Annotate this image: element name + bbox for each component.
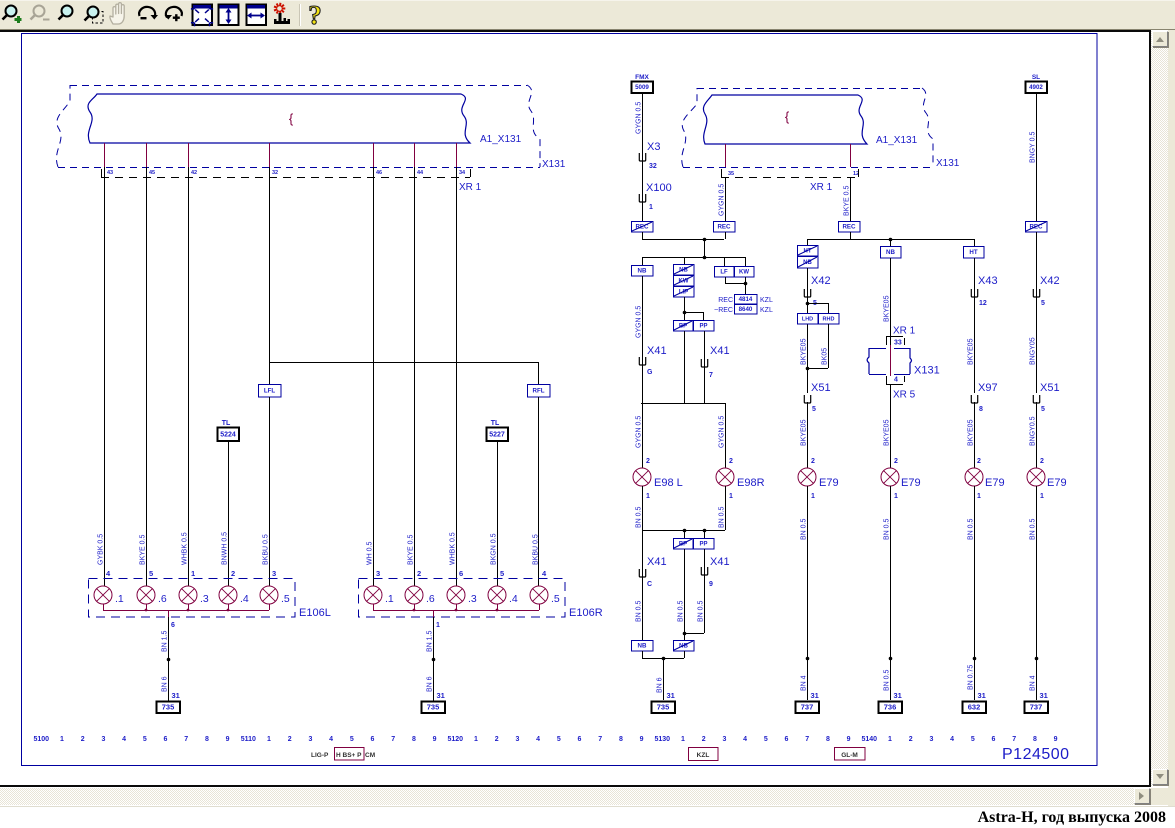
svg-text:34: 34 [459, 170, 466, 176]
svg-text:BN 0.5: BN 0.5 [719, 506, 726, 528]
svg-text:4: 4 [329, 736, 333, 743]
svg-text:XR 1: XR 1 [810, 182, 833, 193]
svg-text:8: 8 [619, 736, 623, 743]
svg-text:BN 0.5: BN 0.5 [884, 518, 891, 540]
svg-text:X131: X131 [936, 158, 960, 169]
svg-text:9: 9 [847, 736, 851, 743]
svg-text:31: 31 [172, 691, 180, 700]
svg-text:735: 735 [657, 703, 670, 712]
svg-text:5: 5 [143, 736, 147, 743]
svg-text:7: 7 [1012, 736, 1016, 743]
svg-text:E98 L: E98 L [654, 477, 683, 489]
svg-text:X131: X131 [542, 159, 566, 170]
svg-text:5110: 5110 [241, 736, 256, 743]
svg-text:1: 1 [267, 736, 271, 743]
svg-text:BNGY 0.5: BNGY 0.5 [1030, 132, 1037, 163]
svg-text:32: 32 [649, 163, 657, 170]
svg-text:BN 0.5: BN 0.5 [801, 518, 808, 540]
svg-text:GYGN 0.5: GYGN 0.5 [719, 184, 726, 216]
svg-text:P124500: P124500 [1002, 746, 1070, 763]
svg-text:.4: .4 [509, 593, 518, 605]
svg-text:BKYE 0.5: BKYE 0.5 [140, 535, 147, 565]
svg-text:A1_X131: A1_X131 [480, 134, 522, 145]
svg-text:LFL: LFL [264, 388, 276, 395]
svg-text:2: 2 [1040, 458, 1044, 465]
svg-text:BN 0.5: BN 0.5 [1030, 518, 1037, 540]
svg-text:RHD: RHD [823, 316, 835, 322]
svg-text:8: 8 [826, 736, 830, 743]
svg-text:2: 2 [702, 736, 706, 743]
svg-text:4814: 4814 [739, 296, 753, 303]
svg-text:GYGN 0.5: GYGN 0.5 [719, 416, 726, 448]
svg-text:XR 1: XR 1 [459, 182, 482, 193]
svg-text:PP: PP [699, 324, 707, 330]
svg-text:2: 2 [646, 458, 650, 465]
svg-text:BKBU 0.5: BKBU 0.5 [263, 534, 270, 565]
svg-text:G: G [647, 369, 653, 376]
svg-text:1: 1 [191, 569, 195, 578]
svg-text:BN 6: BN 6 [657, 677, 664, 693]
svg-text:{: { [785, 109, 790, 124]
svg-text:7: 7 [805, 736, 809, 743]
svg-text:9: 9 [1054, 736, 1058, 743]
svg-text:X100: X100 [646, 182, 672, 194]
svg-text:31: 31 [667, 691, 675, 700]
svg-text:31: 31 [978, 691, 986, 700]
svg-text:6: 6 [459, 569, 463, 578]
svg-text:BN 0.5: BN 0.5 [636, 506, 643, 528]
svg-text:~REC: ~REC [714, 307, 733, 314]
svg-text:2: 2 [811, 458, 815, 465]
svg-text:C: C [647, 581, 652, 588]
svg-text:E79: E79 [1047, 477, 1067, 489]
svg-text:X42: X42 [811, 275, 831, 287]
svg-text:2: 2 [909, 736, 913, 743]
svg-text:5: 5 [557, 736, 561, 743]
svg-text:2: 2 [288, 736, 292, 743]
svg-text:BN 0.5: BN 0.5 [636, 600, 643, 622]
svg-text:31: 31 [811, 691, 819, 700]
svg-text:X42: X42 [1040, 275, 1060, 287]
svg-text:KW: KW [739, 270, 749, 276]
svg-text:1: 1 [729, 493, 733, 500]
svg-text:6: 6 [164, 736, 168, 743]
svg-text:7: 7 [391, 736, 395, 743]
svg-text:BN 6: BN 6 [427, 676, 434, 692]
svg-text:8: 8 [979, 406, 983, 413]
svg-text:9: 9 [433, 736, 437, 743]
svg-text:4: 4 [122, 736, 126, 743]
svg-text:5130: 5130 [655, 736, 671, 743]
svg-text:1: 1 [436, 622, 440, 629]
svg-text:3: 3 [376, 569, 380, 578]
svg-text:BKBU 0.5: BKBU 0.5 [533, 534, 540, 565]
svg-text:1: 1 [811, 493, 815, 500]
svg-text:E106L: E106L [299, 607, 331, 619]
svg-text:X131: X131 [914, 365, 940, 377]
svg-text:9: 9 [709, 581, 713, 588]
svg-text:46: 46 [376, 170, 382, 176]
svg-text:7: 7 [709, 372, 713, 379]
svg-text:1: 1 [894, 493, 898, 500]
svg-text:BKYE05: BKYE05 [884, 419, 891, 446]
svg-text:X3: X3 [647, 141, 660, 153]
svg-text:8640: 8640 [739, 306, 753, 313]
svg-text:3: 3 [101, 736, 105, 743]
svg-text:.4: .4 [240, 593, 249, 605]
svg-text:BNWH 0.5: BNWH 0.5 [222, 532, 229, 565]
svg-text:5: 5 [149, 569, 153, 578]
svg-text:6: 6 [992, 736, 996, 743]
svg-text:8: 8 [1033, 736, 1037, 743]
svg-text:2: 2 [894, 458, 898, 465]
svg-text:2: 2 [495, 736, 499, 743]
svg-text:RFL: RFL [532, 388, 544, 395]
svg-text:BN 0.5: BN 0.5 [698, 600, 705, 622]
svg-text:6: 6 [578, 736, 582, 743]
svg-text:33: 33 [894, 340, 902, 347]
svg-text:3: 3 [929, 736, 933, 743]
svg-text:6: 6 [785, 736, 789, 743]
svg-text:BN 6: BN 6 [162, 676, 169, 692]
svg-text:X41: X41 [647, 345, 667, 357]
svg-text:.1: .1 [385, 593, 394, 605]
svg-text:XR 5: XR 5 [893, 390, 916, 401]
svg-text:X41: X41 [710, 345, 730, 357]
svg-text:5: 5 [764, 736, 768, 743]
svg-text:GYGN 0.5: GYGN 0.5 [636, 306, 643, 338]
svg-text:GYGN 0.5: GYGN 0.5 [636, 416, 643, 448]
svg-text:45: 45 [149, 170, 155, 176]
svg-text:9: 9 [226, 736, 230, 743]
svg-text:TL: TL [222, 420, 231, 427]
svg-text:5: 5 [971, 736, 975, 743]
svg-text:3: 3 [515, 736, 519, 743]
svg-text:.3: .3 [468, 593, 477, 605]
svg-text:CM: CM [365, 752, 375, 759]
svg-text:1: 1 [649, 204, 653, 211]
svg-text:BKYE 0.5: BKYE 0.5 [408, 535, 415, 565]
svg-text:5: 5 [812, 406, 816, 413]
svg-text:.3: .3 [200, 593, 209, 605]
svg-text:WH 0.5: WH 0.5 [367, 542, 374, 565]
svg-text:4: 4 [106, 569, 111, 578]
svg-text:BKYE 0.5: BKYE 0.5 [844, 186, 851, 216]
svg-text:KZL: KZL [697, 752, 710, 759]
svg-text:.1: .1 [115, 593, 124, 605]
svg-text:5100: 5100 [34, 736, 50, 743]
svg-text:8: 8 [205, 736, 209, 743]
svg-text:2: 2 [81, 736, 85, 743]
svg-text:REC: REC [718, 297, 733, 304]
svg-text:BKYE05: BKYE05 [968, 419, 975, 446]
svg-text:HT: HT [969, 249, 977, 256]
svg-text:BNGY0.5: BNGY0.5 [1030, 416, 1037, 446]
svg-text:31: 31 [1040, 691, 1048, 700]
svg-text:1: 1 [888, 736, 892, 743]
svg-text:NB: NB [638, 268, 647, 275]
svg-text:7: 7 [598, 736, 602, 743]
svg-text:737: 737 [1030, 703, 1043, 712]
svg-text:A1_X131: A1_X131 [876, 135, 918, 146]
svg-text:4: 4 [536, 736, 540, 743]
svg-text:31: 31 [894, 691, 902, 700]
svg-text:1: 1 [646, 493, 650, 500]
svg-text:43: 43 [107, 170, 113, 176]
svg-text:BK05: BK05 [822, 348, 829, 365]
svg-text:1: 1 [1040, 493, 1044, 500]
svg-text:1: 1 [681, 736, 685, 743]
svg-text:E98R: E98R [737, 477, 765, 489]
svg-text:3: 3 [272, 569, 276, 578]
svg-text:H BS+ P: H BS+ P [336, 752, 362, 759]
svg-text:5009: 5009 [635, 84, 649, 91]
svg-text:BN 0.5: BN 0.5 [678, 600, 685, 622]
svg-text:LIG-P: LIG-P [311, 752, 329, 759]
svg-text:KZL: KZL [760, 307, 773, 314]
svg-text:1: 1 [60, 736, 64, 743]
svg-text:GYGN 0.5: GYGN 0.5 [636, 102, 643, 134]
svg-text:X51: X51 [811, 382, 831, 394]
svg-text:2: 2 [417, 569, 421, 578]
svg-text:?: ? [308, 0, 322, 30]
svg-text:5120: 5120 [448, 736, 464, 743]
svg-text:{: { [289, 111, 294, 126]
svg-text:5: 5 [1041, 406, 1045, 413]
svg-text:6: 6 [171, 622, 175, 629]
svg-text:BKYE05: BKYE05 [968, 338, 975, 365]
svg-text:1: 1 [977, 493, 981, 500]
svg-text:X41: X41 [710, 556, 730, 568]
svg-text:XR 1: XR 1 [893, 326, 916, 337]
svg-text:BN 1.5: BN 1.5 [162, 630, 169, 652]
svg-text:4: 4 [950, 736, 954, 743]
svg-text:632: 632 [968, 703, 981, 712]
svg-text:.5: .5 [551, 593, 560, 605]
svg-text:X51: X51 [1040, 382, 1060, 394]
svg-text:12: 12 [979, 300, 987, 307]
svg-text:735: 735 [427, 703, 440, 712]
svg-text:E79: E79 [819, 477, 839, 489]
svg-text:X97: X97 [978, 382, 998, 394]
svg-text:E79: E79 [901, 477, 921, 489]
svg-text:BN 0.5: BN 0.5 [968, 518, 975, 540]
svg-text:KZL: KZL [760, 297, 773, 304]
svg-text:E79: E79 [985, 477, 1005, 489]
svg-text:BN 1.5: BN 1.5 [427, 630, 434, 652]
svg-text:LF: LF [720, 270, 728, 276]
svg-text:4: 4 [542, 569, 547, 578]
svg-text:1: 1 [474, 736, 478, 743]
svg-text:LHD: LHD [802, 316, 813, 322]
svg-text:5: 5 [1041, 300, 1045, 307]
svg-text:5: 5 [500, 569, 504, 578]
svg-text:SL: SL [1032, 74, 1040, 81]
svg-text:4: 4 [894, 377, 898, 384]
svg-text:BNGY05: BNGY05 [1030, 337, 1037, 365]
svg-text:44: 44 [417, 170, 424, 176]
svg-text:PP: PP [699, 542, 707, 548]
svg-text:735: 735 [162, 703, 175, 712]
svg-text:NB: NB [886, 249, 895, 256]
svg-text:5: 5 [350, 736, 354, 743]
svg-text:.6: .6 [158, 593, 167, 605]
svg-text:.6: .6 [426, 593, 435, 605]
svg-text:NB: NB [638, 643, 647, 650]
svg-text:BN 4: BN 4 [1030, 675, 1037, 691]
svg-text:BKYE05: BKYE05 [884, 295, 891, 322]
svg-text:3: 3 [722, 736, 726, 743]
svg-text:X41: X41 [647, 556, 667, 568]
svg-text:GL-M: GL-M [841, 752, 858, 759]
svg-text:5140: 5140 [862, 736, 878, 743]
svg-text:E106R: E106R [569, 607, 603, 619]
svg-text:31: 31 [437, 691, 445, 700]
svg-text:TL: TL [491, 420, 500, 427]
svg-text:9: 9 [640, 736, 644, 743]
svg-text:2: 2 [231, 569, 235, 578]
svg-text:736: 736 [884, 703, 897, 712]
svg-text:737: 737 [801, 703, 814, 712]
svg-text:8: 8 [412, 736, 416, 743]
svg-text:BKGN 0.5: BKGN 0.5 [491, 533, 498, 565]
svg-text:WHBK 0.5: WHBK 0.5 [182, 532, 189, 565]
svg-text:BN 0.5: BN 0.5 [884, 669, 891, 691]
svg-text:4902: 4902 [1029, 84, 1043, 91]
svg-text:42: 42 [191, 170, 197, 176]
svg-text:REC: REC [717, 224, 731, 231]
svg-text:BN 4: BN 4 [801, 675, 808, 691]
svg-text:BN 0.75: BN 0.75 [968, 665, 975, 690]
svg-text:BKYE05: BKYE05 [801, 338, 808, 365]
svg-text:3: 3 [308, 736, 312, 743]
svg-text:5227: 5227 [489, 432, 505, 439]
svg-text:35: 35 [728, 171, 734, 177]
svg-text:REC: REC [842, 224, 856, 231]
svg-text:2: 2 [729, 458, 733, 465]
svg-text:X43: X43 [978, 275, 998, 287]
svg-text:32: 32 [272, 170, 278, 176]
svg-text:7: 7 [184, 736, 188, 743]
svg-text:.5: .5 [281, 593, 290, 605]
svg-text:GYBK 0.5: GYBK 0.5 [98, 534, 105, 565]
svg-text:6: 6 [371, 736, 375, 743]
svg-text:WHBK 0.5: WHBK 0.5 [450, 532, 457, 565]
svg-text:4: 4 [743, 736, 747, 743]
svg-text:FMX: FMX [635, 74, 649, 81]
svg-text:BKYE05: BKYE05 [801, 419, 808, 446]
svg-text:5224: 5224 [220, 432, 236, 439]
svg-text:2: 2 [977, 458, 981, 465]
